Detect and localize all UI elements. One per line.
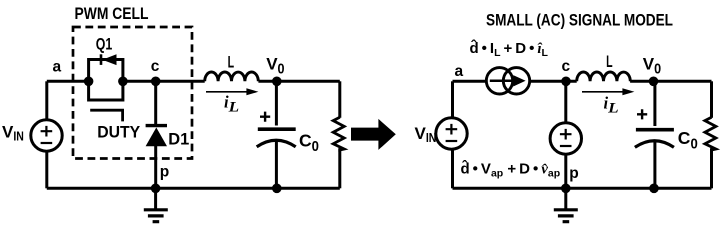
wire right branch bottom bbox=[338, 148, 341, 188]
wire inductor to resistor corner bbox=[258, 80, 339, 83]
inductor L right bbox=[577, 72, 631, 81]
wire a-node horizontal right circuit bbox=[453, 80, 487, 83]
svg-text:p: p bbox=[569, 165, 578, 182]
ground left bbox=[154, 188, 157, 209]
big block arrow bbox=[351, 119, 396, 150]
svg-text:D1: D1 bbox=[168, 131, 189, 149]
wire bottom rail right circuit bbox=[453, 187, 712, 190]
svg-text:c: c bbox=[562, 58, 571, 75]
wire node c to source bbox=[564, 81, 567, 123]
svg-text:d̂ • Vap + D • v̂ap: d̂ • Vap + D • v̂ap bbox=[461, 159, 561, 180]
node p dot bbox=[151, 184, 161, 194]
wire bottom rail left circuit bbox=[47, 187, 340, 190]
voltage source VIN left bbox=[31, 120, 62, 151]
junction dot cap bottom left bbox=[272, 184, 282, 194]
capacitor CO left bbox=[275, 81, 278, 125]
node p dot right bbox=[561, 184, 571, 194]
svg-text:a: a bbox=[53, 58, 62, 75]
svg-text:d̂ • IL + D • îL: d̂ • IL + D • îL bbox=[470, 38, 549, 59]
svg-text:PWM CELL: PWM CELL bbox=[75, 4, 149, 23]
resistor load right bbox=[705, 117, 716, 150]
node c dot right bbox=[561, 77, 571, 87]
plus sign CO left bbox=[260, 112, 270, 122]
svg-text:L: L bbox=[606, 53, 613, 71]
transistor Q1 bbox=[89, 60, 123, 101]
wire a-node horizontal bbox=[47, 80, 89, 83]
wire left branch right circuit top bbox=[451, 81, 454, 118]
wire right branch right circuit top bbox=[710, 81, 713, 118]
dashed box PWM cell bbox=[73, 27, 192, 159]
junction dot Q1 right bbox=[118, 77, 128, 87]
junction dot cap bottom right bbox=[649, 184, 659, 194]
wire right branch top bbox=[338, 81, 341, 118]
svg-text:p: p bbox=[160, 163, 169, 180]
svg-text:L: L bbox=[228, 53, 235, 71]
node VO dot left bbox=[272, 77, 282, 87]
wire right branch right circuit bottom bbox=[710, 148, 713, 188]
current source d.IL bbox=[486, 68, 512, 94]
capacitor CO right bbox=[653, 81, 656, 126]
node c dot bbox=[151, 77, 161, 87]
ground right bbox=[564, 188, 567, 209]
svg-text:DUTY: DUTY bbox=[97, 123, 140, 141]
junction dot Q1 left bbox=[84, 77, 94, 87]
wire inductor to right corner bbox=[630, 80, 711, 83]
wire left branch Vin bottom bbox=[45, 151, 48, 188]
wire current source to node c bbox=[530, 80, 577, 83]
svg-text:Q1: Q1 bbox=[96, 35, 113, 53]
diode D1 bbox=[154, 81, 157, 125]
plus sign CO right bbox=[637, 109, 647, 119]
inductor L left bbox=[205, 72, 259, 81]
current arrow iL right bbox=[582, 91, 624, 93]
voltage source d.Vap bbox=[550, 123, 581, 154]
Q1 gate bbox=[90, 110, 122, 121]
node VO dot right bbox=[649, 77, 659, 87]
wire c to inductor bbox=[123, 80, 205, 83]
svg-text:a: a bbox=[455, 63, 464, 80]
wire left branch right circuit bottom bbox=[451, 149, 454, 188]
wire left branch Vin top bbox=[45, 81, 48, 120]
svg-text:SMALL (AC) SIGNAL MODEL: SMALL (AC) SIGNAL MODEL bbox=[486, 11, 673, 30]
wire source to node p bbox=[564, 154, 567, 188]
resistor load left bbox=[333, 117, 344, 150]
voltage source VIN right bbox=[436, 118, 467, 149]
current arrow iL left bbox=[206, 91, 248, 93]
svg-text:c: c bbox=[151, 58, 160, 75]
